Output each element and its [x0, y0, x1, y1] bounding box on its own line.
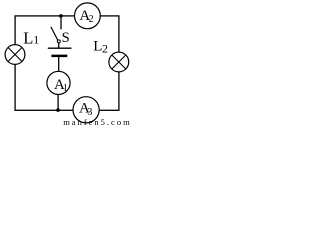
- ammeter A3 circle: [73, 97, 99, 123]
- battery positive plate (long): [48, 47, 72, 49]
- svg-text:1: 1: [33, 33, 39, 47]
- wire outer loop (top rail, right rail, bottom rail, left rail): [15, 16, 119, 110]
- ammeter A1 circle: [47, 71, 70, 94]
- lamp L1 cross: [8, 48, 22, 62]
- ammeter A2 circle: [75, 3, 101, 29]
- wire ammeter A1 to bottom rail: [57, 94, 59, 110]
- node junction dot top rail: [59, 14, 63, 18]
- wire switch to battery: [58, 43, 60, 48]
- lamp L2 cross: [112, 55, 126, 69]
- switch S pivot contact circle: [57, 40, 60, 43]
- svg-text:2: 2: [102, 42, 108, 56]
- svg-text:1: 1: [63, 83, 68, 94]
- wire middle branch top (junction to switch contact): [60, 16, 62, 30]
- svg-text:2: 2: [89, 14, 94, 25]
- switch S blade: [51, 27, 58, 41]
- wire battery to ammeter A1: [58, 56, 60, 72]
- svg-text:manfen5.com: manfen5.com: [63, 117, 131, 126]
- svg-text:S: S: [62, 30, 70, 46]
- battery negative plate (short thick): [51, 55, 67, 58]
- lamp L2 circle: [109, 52, 129, 72]
- svg-text:L: L: [23, 28, 33, 47]
- lamp L1 circle: [5, 45, 25, 65]
- node junction dot bottom rail: [56, 108, 60, 112]
